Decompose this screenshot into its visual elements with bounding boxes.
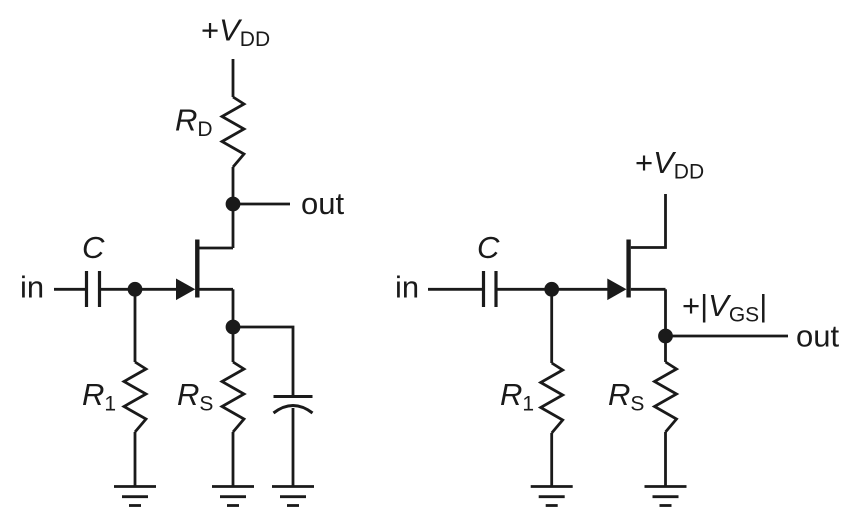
wire in to C (right) [428, 288, 482, 291]
label out (right) [796, 319, 839, 354]
svg-text:in: in [395, 270, 419, 305]
resistor RS (right) [655, 362, 677, 432]
label in (right) [395, 270, 419, 305]
node out (left) [226, 197, 241, 212]
svg-text:RS: RS [608, 377, 644, 416]
wire R1 to ground (left) [134, 432, 137, 487]
wire R1 to ground (right) [550, 433, 553, 487]
wire source node to RS (left) [232, 327, 235, 362]
node source (left) [226, 320, 241, 335]
node out (right) [658, 329, 673, 344]
svg-text:R1: R1 [82, 377, 116, 416]
capacitor CS bypass [274, 397, 313, 414]
wire C to gate arrow (left) [101, 288, 178, 291]
resistor RD [222, 97, 244, 167]
label RS (right) [608, 377, 644, 416]
wire source to source node (left) [232, 289, 235, 327]
ground (right RS) [645, 487, 687, 506]
wire RS to ground (right) [664, 432, 667, 487]
svg-text:RS: RS [177, 377, 213, 416]
capacitor C (left) [87, 271, 100, 307]
svg-text:+VDD: +VDD [201, 13, 270, 52]
label out (left) [301, 186, 344, 221]
ground (left R1) [114, 487, 156, 506]
label C (left) [82, 230, 105, 265]
wire out node to RS (right) [664, 336, 667, 362]
ground (left RS) [212, 487, 254, 506]
wire out lead (right) [672, 335, 788, 338]
wire source node to bypass cap [233, 327, 293, 397]
wire VDD to drain corner (right) [631, 194, 666, 248]
label +|VGS| [682, 288, 767, 327]
svg-text:+|VGS|: +|VGS| [682, 288, 767, 327]
label C (right) [477, 230, 500, 265]
label RD [175, 103, 213, 142]
svg-text:C: C [477, 230, 500, 265]
resistor RS (left) [222, 362, 244, 432]
wire in to C (left) [54, 288, 85, 291]
wire gate node to R1 (left) [134, 289, 137, 362]
resistor R1 (right) [541, 363, 563, 433]
power +VDD (right) [635, 145, 704, 184]
wire gate node to R1 (right) [550, 289, 553, 363]
svg-text:+VDD: +VDD [635, 145, 704, 184]
wire out lead (left) [240, 203, 290, 206]
wire RS to ground (left) [232, 432, 235, 487]
transistor Q1 JFET (left) [176, 240, 233, 301]
node gate (left) [128, 282, 143, 297]
svg-text:R1: R1 [500, 377, 534, 416]
svg-text:C: C [82, 230, 105, 265]
label RS (left) [177, 377, 213, 416]
wire C to gate arrow (right) [498, 288, 610, 291]
node gate (right) [544, 282, 559, 297]
power +VDD (left) [201, 13, 270, 52]
svg-text:out: out [301, 186, 344, 221]
label R1 (left) [82, 377, 116, 416]
transistor Q2 JFET (right) [607, 240, 665, 301]
wire VDD to RD [232, 59, 235, 97]
label R1 (right) [500, 377, 534, 416]
svg-text:in: in [20, 270, 44, 305]
ground (left bypass) [272, 487, 314, 506]
resistor R1 (left) [124, 362, 146, 432]
wire source to out node (right) [664, 289, 667, 336]
wire RD to drain corner [232, 167, 235, 248]
svg-text:RD: RD [175, 103, 213, 142]
wire bypass cap to ground [292, 408, 295, 487]
label in (left) [20, 270, 44, 305]
capacitor C (right) [484, 271, 497, 307]
ground (right R1) [531, 487, 573, 506]
svg-text:out: out [796, 319, 839, 354]
